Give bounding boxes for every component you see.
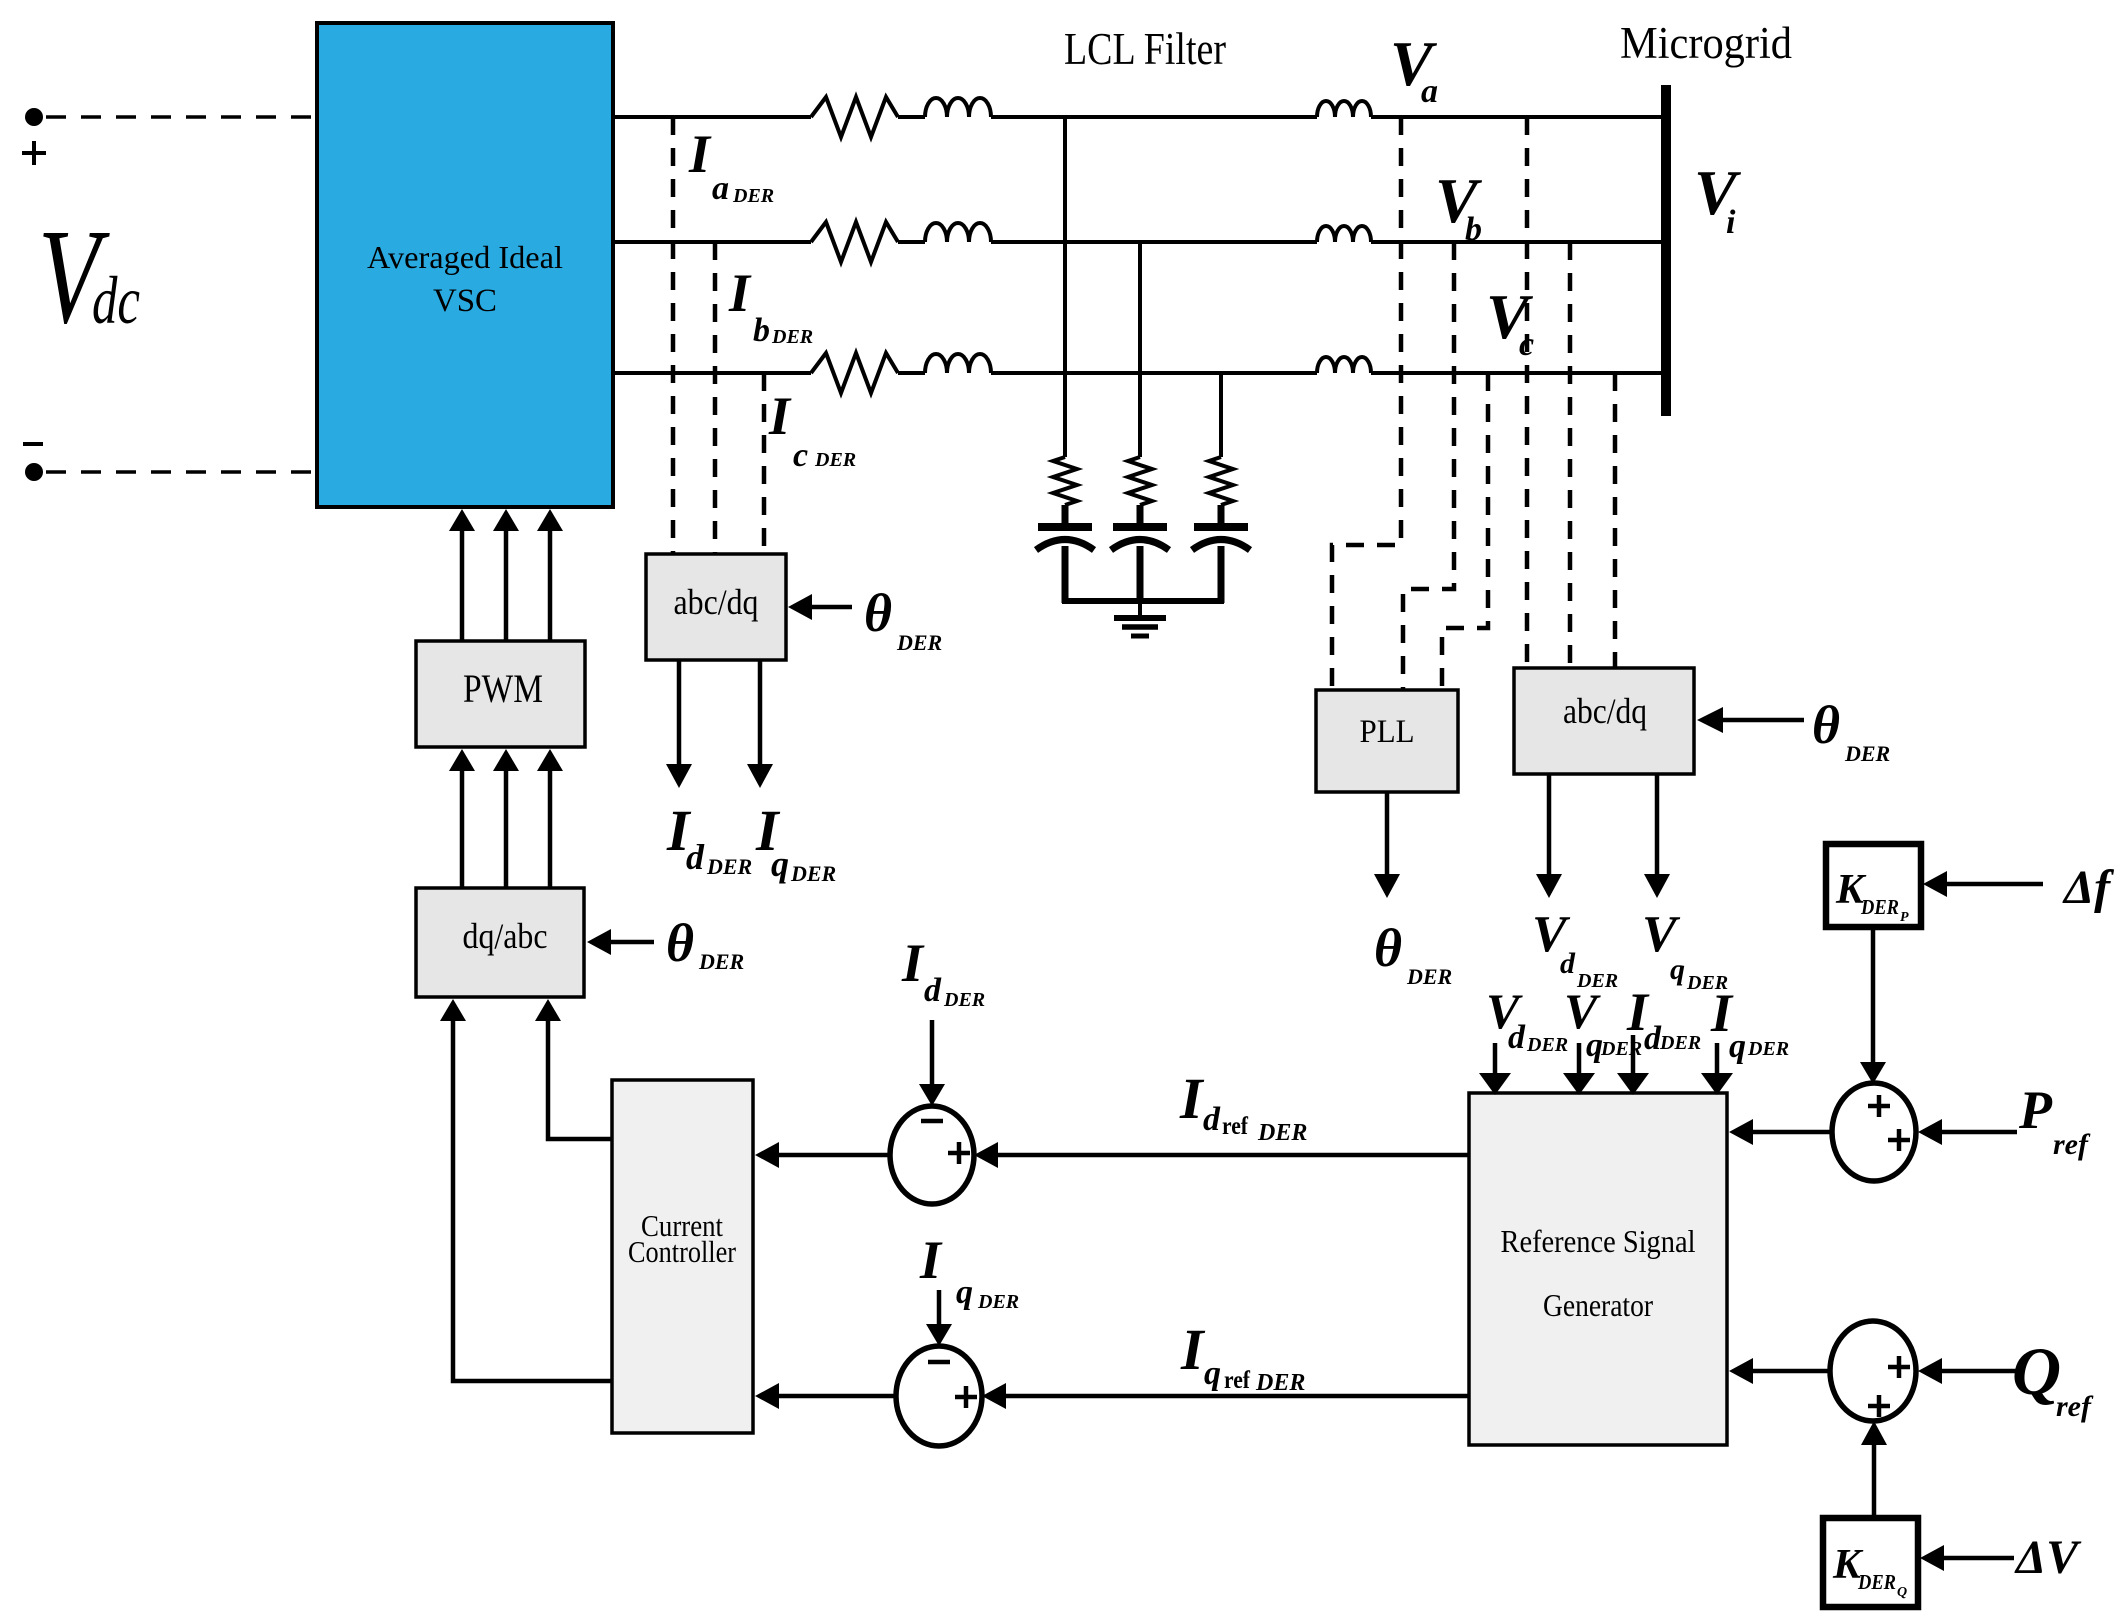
abc/dq block U4 (voltage)	[1514, 668, 1694, 774]
wire PWM to VSC c	[548, 531, 553, 641]
wire phase A to bus	[1371, 115, 1662, 119]
svg-text:abc/dq: abc/dq	[674, 582, 759, 622]
wire Vq_DER into RSG	[1577, 1043, 1582, 1073]
svg-text:DER: DER	[1255, 1370, 1305, 1396]
Reference Signal Generator block	[1469, 1093, 1727, 1445]
svg-text:I: I	[1179, 1066, 1205, 1131]
wire S3 to RSG	[1753, 1130, 1832, 1135]
svg-text:ref: ref	[1222, 1113, 1249, 1140]
wire phase B to bus	[1371, 240, 1662, 244]
svg-text:DER: DER	[771, 326, 813, 348]
wire Iqref from RSG to S2	[1006, 1394, 1469, 1399]
summing junction S3 (P)	[1832, 1083, 1916, 1181]
abc/dq block U2 (current)	[646, 554, 786, 660]
summing junction S1 (d-axis)	[890, 1106, 974, 1204]
gain block K_DER_Q	[1823, 1518, 1918, 1607]
dq/abc block U3	[416, 888, 584, 997]
wire phase C mid	[898, 371, 925, 375]
wire PWM to VSC b	[504, 531, 509, 641]
wire dashed Vb to abc/dq	[1568, 242, 1573, 668]
theta_DER input arrow to U4	[1723, 718, 1804, 723]
wire dashed DC-	[46, 470, 317, 474]
svg-text:DER: DER	[1857, 1570, 1896, 1594]
wire Id_DER into S1	[930, 1020, 935, 1084]
resistor Rc	[811, 353, 898, 393]
PLL block	[1316, 690, 1458, 792]
svg-text:d: d	[924, 972, 942, 1009]
svg-text:b: b	[753, 312, 770, 349]
wire Iq_DER output	[758, 660, 763, 764]
svg-text:DER: DER	[1659, 1032, 1701, 1054]
svg-text:DER: DER	[943, 989, 985, 1011]
wire Id_DER into RSG	[1631, 1035, 1636, 1073]
wire dashed Vc to PLL	[1442, 373, 1488, 690]
svg-text:DER: DER	[1686, 972, 1728, 994]
wire dashed Va to abc/dq	[1525, 117, 1530, 668]
svg-text:ref: ref	[2053, 1128, 2091, 1161]
svg-text:abc/dq: abc/dq	[1563, 691, 1647, 731]
wire Vq_DER output	[1655, 774, 1660, 874]
capacitor Cf3	[1192, 505, 1250, 603]
svg-text:P: P	[2018, 1080, 2053, 1140]
svg-text:ref: ref	[1224, 1367, 1251, 1394]
svg-text:Controller: Controller	[628, 1234, 737, 1269]
svg-text:I: I	[768, 386, 792, 446]
wire theta_DER output of PLL	[1385, 792, 1390, 874]
minus sign	[23, 442, 43, 446]
svg-text:Microgrid: Microgrid	[1620, 18, 1792, 68]
Delta-V input arrow	[1944, 1556, 2014, 1561]
wire Idref from RSG to S1	[998, 1153, 1469, 1158]
svg-text:q: q	[1670, 953, 1685, 986]
svg-text:d: d	[1203, 1101, 1221, 1138]
plus sign	[22, 141, 46, 165]
svg-text:Generator: Generator	[1543, 1287, 1653, 1323]
wire dashed Vc to abc/dq	[1613, 373, 1618, 668]
VSC block U1	[317, 23, 613, 507]
wire K_DER_P to S3	[1871, 927, 1876, 1062]
svg-text:θ: θ	[1374, 918, 1402, 978]
wire CC to dq/abc (d)	[548, 1021, 612, 1139]
wire dashed DC+	[46, 115, 317, 119]
svg-text:DER: DER	[896, 630, 942, 655]
wire dashed Ib measurement	[713, 242, 718, 554]
PWM block	[416, 641, 585, 747]
wire PWM to VSC a	[460, 531, 465, 641]
svg-text:c: c	[793, 437, 808, 474]
ground	[1114, 601, 1166, 636]
wire shunt branch C	[1219, 373, 1223, 457]
svg-text:ΔV: ΔV	[2014, 1531, 2082, 1584]
svg-text:PWM: PWM	[463, 666, 543, 711]
wire Id_DER output	[677, 660, 682, 764]
svg-text:DER: DER	[698, 949, 744, 974]
svg-text:VSC: VSC	[433, 283, 497, 319]
svg-text:I: I	[901, 933, 925, 993]
wire Iq_DER into S2	[937, 1290, 942, 1324]
svg-text:I: I	[688, 124, 712, 184]
wire S4 to RSG	[1753, 1369, 1830, 1374]
svg-text:DER: DER	[732, 185, 774, 207]
resistor Rd2 (damping, phase B)	[1128, 457, 1152, 505]
wire CC to dq/abc (q)	[453, 1021, 612, 1381]
svg-text:q: q	[1729, 1028, 1746, 1065]
svg-text:DER: DER	[1860, 895, 1899, 919]
svg-text:dc: dc	[92, 262, 140, 338]
wire S2 to CC	[779, 1394, 896, 1399]
inductor La1	[925, 98, 991, 117]
bus bar Vi	[1661, 85, 1671, 416]
svg-text:d: d	[1560, 947, 1576, 980]
wire phase B	[613, 240, 811, 244]
svg-text:P: P	[1900, 910, 1909, 925]
DC negative terminal node	[25, 463, 43, 481]
svg-text:I: I	[1180, 1317, 1206, 1382]
svg-text:I: I	[728, 263, 752, 323]
gain block K_DER_P	[1826, 844, 1921, 927]
svg-text:DER: DER	[790, 861, 836, 886]
wire phase A mid	[898, 115, 925, 119]
resistor Ra	[811, 97, 898, 137]
wire S1 to CC	[779, 1153, 890, 1158]
svg-text:i: i	[1726, 204, 1736, 241]
svg-text:θ: θ	[666, 913, 694, 973]
svg-text:Δf: Δf	[2062, 861, 2114, 914]
svg-text:θ: θ	[1812, 695, 1840, 755]
svg-text:Reference Signal: Reference Signal	[1501, 1223, 1696, 1259]
svg-text:d: d	[1508, 1019, 1526, 1056]
theta_DER input arrow to U2	[812, 605, 852, 610]
svg-text:LCL Filter: LCL Filter	[1064, 24, 1226, 74]
svg-text:b: b	[1465, 211, 1482, 248]
wire phase A	[613, 115, 811, 119]
svg-text:PLL: PLL	[1360, 714, 1415, 750]
wire phase C	[613, 371, 811, 375]
wire phase C to bus	[1371, 371, 1662, 375]
svg-text:a: a	[712, 170, 729, 207]
wire K_DER_Q to S4	[1872, 1445, 1877, 1518]
Qref input arrow	[1942, 1369, 2020, 1374]
resistor Rb	[811, 222, 898, 262]
svg-text:DER: DER	[1257, 1120, 1307, 1146]
svg-text:a: a	[1421, 73, 1438, 110]
Delta-f input arrow	[1947, 882, 2043, 887]
wire dashed Va to PLL	[1332, 117, 1401, 690]
inductor Lb1	[925, 223, 991, 242]
svg-text:Q: Q	[1897, 1585, 1907, 1600]
svg-text:q: q	[1204, 1355, 1221, 1392]
summing junction S2 (q-axis)	[896, 1346, 982, 1446]
svg-text:d: d	[686, 837, 705, 877]
inductor Lc2	[1317, 357, 1371, 373]
inductor Lc1	[925, 354, 991, 373]
svg-text:ref: ref	[2056, 1390, 2094, 1423]
wire Vd_DER into RSG	[1493, 1043, 1498, 1073]
wire Vd_DER output	[1547, 774, 1552, 874]
wire Iq_DER into RSG	[1715, 1043, 1720, 1073]
svg-text:q: q	[771, 844, 789, 884]
wire shunt branch B	[1138, 242, 1142, 457]
svg-text:DER: DER	[1747, 1038, 1789, 1060]
inductor Lb2	[1317, 226, 1371, 242]
svg-text:DER: DER	[1406, 964, 1452, 989]
theta_DER input arrow to U3	[611, 940, 654, 945]
wire dq/abc to PWM c	[548, 771, 553, 888]
svg-text:DER: DER	[977, 1291, 1019, 1313]
svg-text:dq/abc: dq/abc	[463, 916, 548, 956]
resistor Rd3 (damping, phase C)	[1209, 457, 1233, 505]
Pref input arrow	[1942, 1130, 2017, 1135]
svg-text:DER: DER	[814, 449, 856, 471]
wire phase B mid	[898, 240, 925, 244]
wire neutral bar	[1062, 598, 1224, 604]
wire dashed Ia measurement	[671, 117, 676, 554]
svg-text:q: q	[956, 1274, 973, 1311]
Current Controller block	[612, 1080, 753, 1433]
svg-text:DER: DER	[706, 854, 752, 879]
capacitor Cf1	[1036, 505, 1094, 603]
svg-text:Q: Q	[2012, 1333, 2061, 1409]
svg-text:Averaged Ideal: Averaged Ideal	[367, 239, 563, 275]
wire dq/abc to PWM b	[504, 771, 509, 888]
svg-text:I: I	[919, 1230, 943, 1290]
wire dashed Vb to PLL	[1403, 242, 1454, 690]
wire dq/abc to PWM a	[460, 771, 465, 888]
wire dashed Ic measurement	[762, 373, 767, 554]
wire shunt branch A	[1063, 117, 1067, 457]
inductor La2	[1317, 101, 1371, 117]
resistor Rd1 (damping, phase A)	[1053, 457, 1077, 505]
capacitor Cf2	[1111, 505, 1169, 603]
svg-text:θ: θ	[864, 583, 892, 643]
svg-text:DER: DER	[1844, 741, 1890, 766]
DC positive terminal node	[25, 108, 43, 126]
summing junction S4 (Q)	[1830, 1321, 1916, 1421]
svg-text:DER: DER	[1526, 1034, 1568, 1056]
svg-text:DER: DER	[1576, 970, 1618, 992]
